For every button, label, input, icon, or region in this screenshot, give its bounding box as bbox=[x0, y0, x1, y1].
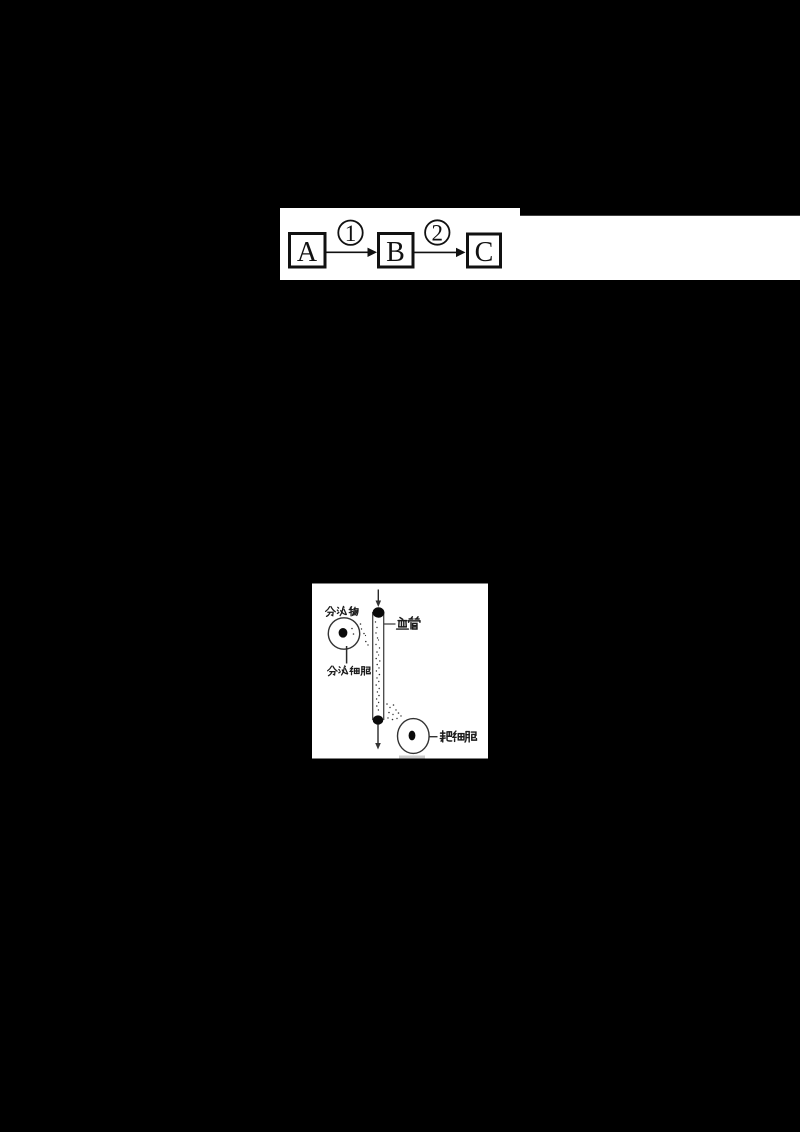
svg-text:2: 2 bbox=[432, 221, 444, 246]
box A bbox=[290, 234, 326, 269]
svg-text:A: A bbox=[297, 237, 318, 268]
shadow under target cell bbox=[399, 756, 425, 759]
white panel 1 bbox=[280, 208, 800, 280]
secretory cell bbox=[328, 618, 359, 649]
vessel bottom end bbox=[373, 715, 384, 724]
circled label 2 bbox=[425, 220, 449, 245]
secretory cell nucleus bbox=[339, 628, 348, 638]
svg-text:B: B bbox=[386, 237, 405, 268]
vessel top end bbox=[373, 607, 385, 617]
svg-text:1: 1 bbox=[345, 221, 357, 246]
dots in vessel bbox=[375, 621, 381, 710]
arrow 1 bbox=[326, 248, 377, 257]
arrow 2 bbox=[415, 248, 466, 257]
inflow arrow bbox=[376, 590, 382, 608]
outflow arrow bbox=[375, 725, 381, 750]
callout line 血管 bbox=[384, 623, 396, 625]
label 耙细胞 bbox=[440, 731, 476, 742]
white panel 2 bbox=[312, 584, 488, 759]
blood vessel tube bbox=[373, 612, 384, 720]
callout line 耙细胞 bbox=[429, 736, 437, 738]
target cell nucleus bbox=[409, 731, 416, 741]
box B bbox=[379, 234, 414, 269]
pointer line 分泌细胞 bbox=[346, 646, 348, 664]
secretion dots bbox=[351, 623, 368, 646]
label 血管 bbox=[397, 617, 420, 629]
target cell bbox=[398, 719, 430, 754]
dots near target cell bbox=[386, 703, 401, 720]
svg-text:C: C bbox=[475, 237, 494, 268]
box C bbox=[468, 234, 501, 268]
circled label 1 bbox=[338, 221, 362, 246]
label 分泌细胞 bbox=[328, 666, 371, 676]
label 分泌物 bbox=[326, 606, 358, 616]
